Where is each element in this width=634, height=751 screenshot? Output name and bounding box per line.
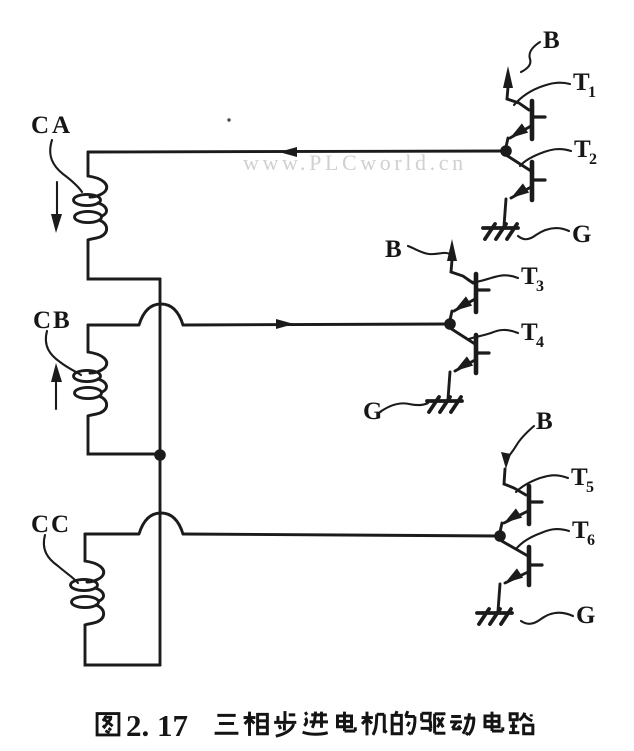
svg-text:B: B bbox=[536, 408, 553, 435]
svg-text:www.PLCworld.cn: www.PLCworld.cn bbox=[243, 150, 467, 175]
svg-text:G: G bbox=[576, 602, 595, 629]
svg-text:4: 4 bbox=[536, 334, 544, 351]
svg-text:CC: CC bbox=[31, 511, 71, 538]
svg-text:G: G bbox=[572, 221, 591, 248]
svg-text:5: 5 bbox=[586, 479, 594, 496]
svg-text:2. 17: 2. 17 bbox=[126, 708, 188, 743]
svg-text:3: 3 bbox=[536, 278, 544, 295]
svg-text:CA: CA bbox=[31, 112, 73, 139]
svg-text:2: 2 bbox=[589, 151, 597, 168]
svg-text:1: 1 bbox=[588, 84, 596, 101]
svg-text:CB: CB bbox=[33, 307, 72, 334]
svg-text:B: B bbox=[385, 236, 402, 263]
svg-text:B: B bbox=[543, 27, 560, 54]
svg-text:6: 6 bbox=[587, 532, 595, 549]
